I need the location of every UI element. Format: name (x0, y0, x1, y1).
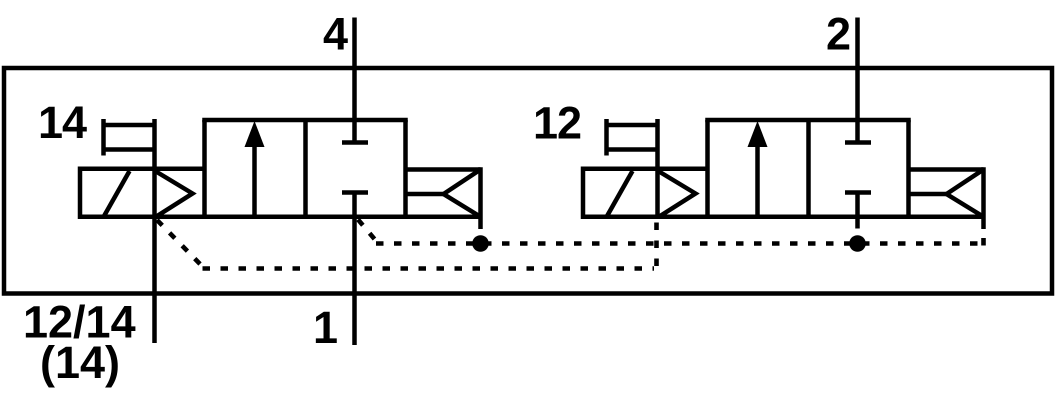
valve V1 air spring middle rail (406, 192, 444, 197)
manual override M1 bottom line (102, 147, 155, 152)
wire dashed corner right up (981, 230, 986, 246)
valve V1 body right edge (403, 120, 408, 217)
wire dashed vertical to V2 pilot (654, 220, 659, 266)
port 4 line (352, 18, 357, 143)
valve V2 air spring right vertical (981, 167, 986, 229)
manifold frame (4, 68, 1052, 294)
valve V1 air spring right vertical (478, 167, 483, 229)
valve V1 seat T top crossbar (342, 140, 368, 145)
valve V1 air spring top rail (406, 167, 481, 172)
valve V2 air spring top rail (909, 167, 984, 172)
port 1 line (352, 193, 357, 346)
valve V2 flow arrow stem (755, 144, 760, 216)
svg-text:14: 14 (38, 97, 87, 148)
valve V2 bottom wire (583, 215, 984, 220)
port 2 line (855, 18, 860, 143)
svg-text:2: 2 (826, 9, 850, 60)
svg-text:(14): (14) (40, 337, 120, 388)
manual override M1 top line (102, 123, 155, 128)
manual override M2 bottom line (605, 147, 658, 152)
pilot port 12/14 line (152, 119, 157, 343)
valve V1 bottom wire (80, 215, 481, 220)
solenoid Y1 diagonal (104, 171, 130, 217)
solenoid Y1 left edge (78, 167, 83, 220)
valve V2 flow arrow head (748, 121, 768, 147)
solenoid Y2 left edge (581, 167, 586, 220)
valve V2 body divider (806, 120, 811, 217)
svg-text:12: 12 (533, 98, 581, 149)
valve V2 seat T bottom stem (855, 193, 860, 229)
valve V2 body top edge (705, 118, 911, 123)
svg-text:1: 1 (313, 302, 337, 353)
wire dashed diagonal lower left (157, 220, 203, 267)
valve V1 body top edge (202, 118, 408, 123)
valve V1 seat T bottom crossbar (342, 190, 368, 195)
valve V1 flow arrow stem (252, 144, 257, 216)
manual override M1 left bar (101, 119, 106, 156)
node junction dot left (472, 235, 489, 252)
valve V1 air spring triangle (444, 170, 481, 217)
valve V1 pilot section top wire (80, 167, 205, 172)
valve V2 air spring triangle (947, 170, 984, 217)
manual override M2 left bar (604, 119, 609, 156)
valve V1 flow arrow head (245, 121, 265, 147)
wire dashed diagonal from port 1 (358, 220, 377, 243)
wire dashed horizontal lower (203, 266, 655, 271)
valve V2 air spring middle rail (909, 192, 947, 197)
valve V2 body left edge (705, 120, 710, 217)
node junction dot right (849, 235, 866, 252)
valve V1 pilot triangle (156, 172, 193, 218)
manual override M2 top line (605, 123, 658, 128)
valve V2 pilot triangle (659, 172, 696, 218)
valve V2 pilot section top wire (583, 167, 708, 172)
wire dashed horizontal upper (376, 241, 978, 246)
valve V1 body left edge (202, 120, 207, 217)
solenoid Y2 diagonal (607, 171, 633, 217)
valve V2 body right edge (906, 120, 911, 217)
valve V2 pilot line vertical (655, 119, 660, 219)
valve V2 seat T bottom crossbar (845, 190, 871, 195)
valve V1 body divider (303, 120, 308, 217)
valve V2 seat T top crossbar (845, 140, 871, 145)
svg-text:4: 4 (323, 9, 348, 60)
